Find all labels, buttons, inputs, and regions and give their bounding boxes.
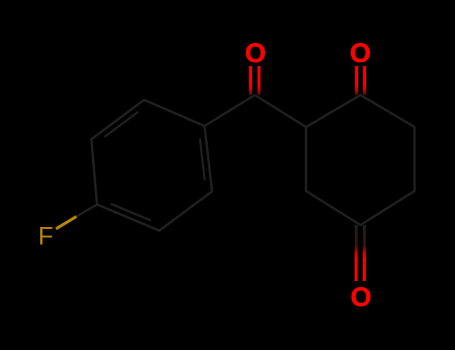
carbonyl C2=O2 double bond stems (red) [355, 66, 358, 95]
aromatic double bond (top / upper-left edge) [105, 112, 139, 137]
svg-text:O: O [245, 38, 266, 68]
cyclohexane-1,4-dione ring [306, 95, 415, 225]
aromatic double bond (upper-right edge) [200, 139, 205, 181]
carbonyl C3=O3 double bond stems (dark halves) [355, 225, 358, 281]
wire: F to ring (gold half) [56, 217, 76, 229]
svg-text:F: F [38, 223, 53, 251]
carbonyl C1=O1 double bond stems (red) [249, 66, 252, 95]
svg-text:O: O [350, 38, 371, 68]
wire: F to ring (carbon half) [76, 205, 97, 217]
aromatic double bond (lower-left edge) [111, 204, 151, 221]
wire: benzoyl C to phenyl [205, 95, 255, 126]
svg-text:O: O [350, 282, 371, 312]
wire: benzoyl C to cyclohexane ring [255, 95, 306, 127]
benzene ring (4-fluorophenyl) [91, 100, 212, 231]
